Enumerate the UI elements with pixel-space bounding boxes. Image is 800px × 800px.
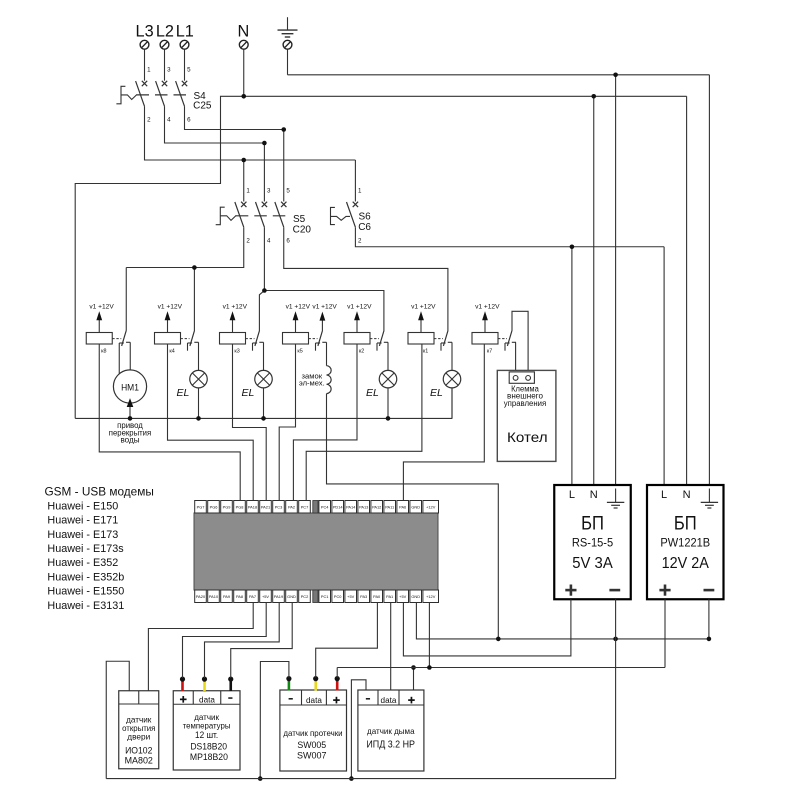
svg-text:2: 2 xyxy=(358,237,362,244)
wire N line to power supplies xyxy=(244,94,687,485)
svg-text:L: L xyxy=(661,489,667,501)
svg-text:data: data xyxy=(306,696,323,705)
relay К5 coil and contact xyxy=(283,304,327,355)
svg-text:PA6: PA6 xyxy=(399,505,406,510)
svg-text:Huawei - E352: Huawei - E352 xyxy=(47,557,118,569)
svg-text:v1 +12V: v1 +12V xyxy=(158,304,183,311)
terminal PE with earth symbol xyxy=(278,17,298,49)
wire +12V rail from PSU2 + xyxy=(337,599,665,670)
svg-text:4: 4 xyxy=(267,237,271,244)
svg-text:Huawei - E150: Huawei - E150 xyxy=(47,500,118,512)
power supply BP PW1221B 12V 2A xyxy=(647,485,724,599)
controller board (gray block) xyxy=(194,513,438,590)
wire K4 contact to lamp EL xyxy=(198,342,200,370)
wire N rail to load return bus xyxy=(75,94,246,418)
relay К2 coil and contact xyxy=(344,304,388,355)
lamp EL at x=388 xyxy=(366,370,397,418)
+12V arrow feeding K5 contact xyxy=(312,304,337,331)
svg-text:Huawei - E1550: Huawei - E1550 xyxy=(47,586,124,598)
svg-text:C20: C20 xyxy=(293,224,312,235)
svg-text:3: 3 xyxy=(267,187,271,194)
wire smoke sensor data to pin PA1 xyxy=(390,603,392,691)
wire +5V rail from PSU1 + xyxy=(403,599,571,656)
svg-text:EL: EL xyxy=(366,387,379,399)
svg-text:PA12: PA12 xyxy=(372,505,381,510)
svg-text:PA2: PA2 xyxy=(288,505,295,510)
svg-text:к5: к5 xyxy=(297,348,302,354)
svg-text:PG9: PG9 xyxy=(223,505,231,510)
terminal L3 xyxy=(136,23,154,50)
relay К8 coil and contact xyxy=(86,304,130,374)
svg-text:PC0: PC0 xyxy=(334,594,342,599)
svg-text:PA14: PA14 xyxy=(346,505,356,510)
svg-text:C25: C25 xyxy=(193,100,212,111)
door sensor (датчик открытия двери ИО102 МА802) xyxy=(119,691,159,769)
terminal L2 xyxy=(156,23,174,50)
svg-text:EL: EL xyxy=(430,387,443,399)
svg-text:PA9: PA9 xyxy=(223,594,230,599)
wire K7 contact to boiler terminal 1 xyxy=(515,342,517,375)
svg-text:PC3: PC3 xyxy=(275,505,283,510)
smoke sensor (датчик дыма ИПД 3.2 НР) xyxy=(358,690,424,771)
svg-text:S6: S6 xyxy=(359,212,372,223)
wire leak sensor + to +12V line xyxy=(336,668,338,678)
svg-text:ИО102: ИО102 xyxy=(125,745,152,755)
wire K5 contact to door lock solenoid xyxy=(326,342,328,365)
svg-text:эл-мех.: эл-мех. xyxy=(299,379,325,388)
wire K1 coil to pin PC7 xyxy=(306,344,422,501)
relay К4 coil and contact xyxy=(155,304,199,355)
svg-text:PA3: PA3 xyxy=(360,594,367,599)
svg-text:PA0: PA0 xyxy=(373,594,381,599)
svg-text:к1: к1 xyxy=(423,348,428,354)
svg-text:Huawei - E352b: Huawei - E352b xyxy=(47,571,124,583)
power supply BP RS-15-5 5V 3A xyxy=(554,485,631,599)
svg-text:L: L xyxy=(569,489,575,501)
svg-text:data: data xyxy=(381,696,398,705)
wire temp sensor - to pin GND xyxy=(231,603,292,679)
wire S6 pin2 to power supplies L xyxy=(355,227,664,485)
svg-text:ИПД 3.2 НР: ИПД 3.2 НР xyxy=(366,739,415,750)
svg-text:5: 5 xyxy=(187,67,191,74)
svg-text:v1 +12V: v1 +12V xyxy=(411,304,436,311)
wire S4 pin4 (L2) to S5 pin3 xyxy=(165,106,267,201)
svg-text:к3: к3 xyxy=(234,348,239,354)
svg-text:Huawei - E3131: Huawei - E3131 xyxy=(47,600,124,612)
svg-text:PG6: PG6 xyxy=(210,505,218,510)
svg-text:N: N xyxy=(590,489,598,501)
svg-text:RS-15-5: RS-15-5 xyxy=(572,535,613,549)
svg-text:12V 2A: 12V 2A xyxy=(662,555,710,572)
svg-text:БП: БП xyxy=(581,512,604,534)
wire door sensor right terminal to pin PA7 xyxy=(148,603,253,691)
svg-text:L2: L2 xyxy=(156,23,174,41)
breaker S4 C25 (3-pole) xyxy=(116,49,211,123)
wire smoke sensor - to ground bus xyxy=(349,680,366,781)
wire K8 coil to pin PG8 xyxy=(99,344,240,501)
svg-text:12 шт.: 12 шт. xyxy=(195,730,218,740)
svg-text:+5V: +5V xyxy=(347,594,354,599)
wire smoke sensor + to +12V line xyxy=(411,665,416,690)
svg-text:v1 +12V: v1 +12V xyxy=(475,304,500,311)
wire K4 coil to pin PA18 xyxy=(168,344,254,501)
svg-text:PA13: PA13 xyxy=(359,505,368,510)
wire K5 coil to pin PC3 xyxy=(279,344,295,501)
svg-text:двери: двери xyxy=(127,733,150,742)
svg-text:+12V: +12V xyxy=(426,594,436,599)
svg-text:управления: управления xyxy=(504,399,546,408)
svg-text:+12V: +12V xyxy=(426,505,436,510)
svg-text:PA8: PA8 xyxy=(236,594,243,599)
svg-text:MP18B20: MP18B20 xyxy=(190,752,228,762)
svg-text:v1 +12V: v1 +12V xyxy=(347,304,372,311)
svg-text:PA7: PA7 xyxy=(249,594,256,599)
label привод перекрытия воды xyxy=(109,421,151,445)
wire leak sensor - to ground bus xyxy=(258,662,289,781)
wire S5 pin6 to relay contact K1 xyxy=(284,227,448,330)
wire S4 pin6 (L1) to S5 pin5 xyxy=(185,106,287,201)
svg-text:PW1221B: PW1221B xyxy=(660,535,710,549)
svg-text:PD14: PD14 xyxy=(333,505,344,510)
relay К7 coil and contact xyxy=(472,304,516,355)
label GSM - USB modem list xyxy=(45,485,154,612)
wire temp sensor + to pin +5V xyxy=(183,603,267,679)
wire PE line to power supplies xyxy=(288,73,710,486)
svg-text:Huawei - E173s: Huawei - E173s xyxy=(47,543,124,555)
svg-text:датчик протечки: датчик протечки xyxy=(283,729,342,738)
wire N terminal to N distribution node xyxy=(243,49,245,96)
svg-text:датчик дыма: датчик дыма xyxy=(367,727,415,736)
PCB bottom pin row right group xyxy=(319,590,439,603)
terminal N xyxy=(238,23,250,50)
svg-text:4: 4 xyxy=(167,116,171,123)
svg-text:2: 2 xyxy=(246,237,250,244)
svg-text:S5: S5 xyxy=(293,214,306,225)
svg-text:5: 5 xyxy=(286,187,290,194)
svg-text:1: 1 xyxy=(358,187,362,194)
PCB pin group separator top xyxy=(313,501,318,514)
lamp EL at x=452 xyxy=(430,370,461,418)
svg-text:GSM - USB модемы: GSM - USB модемы xyxy=(45,485,154,499)
svg-text:data: data xyxy=(199,695,216,704)
wire K8 contact to motor HM1 xyxy=(129,342,131,370)
svg-text:DS18B20: DS18B20 xyxy=(190,742,227,752)
svg-text:GND: GND xyxy=(287,594,296,599)
relay К1 coil and contact xyxy=(408,304,452,355)
svg-text:к7: к7 xyxy=(487,348,492,354)
svg-text:6: 6 xyxy=(286,237,290,244)
svg-text:C6: C6 xyxy=(358,222,371,233)
svg-text:GND: GND xyxy=(411,594,420,599)
terminal L1 xyxy=(176,23,194,50)
breaker S6 C6 (1-pole) xyxy=(331,187,372,244)
svg-text:3: 3 xyxy=(167,67,171,74)
svg-text:+5V: +5V xyxy=(262,594,269,599)
wire PE terminal to earth line xyxy=(287,49,289,75)
wire sensor ground bus xyxy=(106,778,615,780)
svg-text:PA11: PA11 xyxy=(385,505,394,510)
svg-text:5V 3A: 5V 3A xyxy=(572,555,613,572)
wire K2 contact to lamp EL xyxy=(387,342,389,370)
svg-text:SW007: SW007 xyxy=(297,750,327,760)
temperature sensor (датчик температуры 12 шт.) xyxy=(173,691,240,770)
svg-text:v1 +12V: v1 +12V xyxy=(286,304,311,311)
leak sensor pigtails (green/yellow/red) xyxy=(286,676,340,691)
svg-text:PC2: PC2 xyxy=(301,594,309,599)
PCB top pin row left group xyxy=(195,501,311,514)
wire K7 coil to pin PA6 xyxy=(403,344,484,501)
svg-text:PA20: PA20 xyxy=(196,594,206,599)
svg-text:v1 +12V: v1 +12V xyxy=(89,304,114,311)
svg-text:Котел: Котел xyxy=(507,430,548,445)
svg-text:PG8: PG8 xyxy=(236,505,244,510)
svg-text:PC4: PC4 xyxy=(321,505,329,510)
wire S5 pin4 to relay contacts K3,K2 xyxy=(259,227,384,330)
svg-text:SW005: SW005 xyxy=(297,740,326,750)
wire S4 pin2 (L3) to S5 pin1 and S6 pin1 xyxy=(145,106,356,201)
svg-text:PC7: PC7 xyxy=(301,505,309,510)
svg-text:N: N xyxy=(683,489,691,501)
svg-text:v1 +12V: v1 +12V xyxy=(223,304,248,311)
svg-text:БП: БП xyxy=(674,512,697,534)
svg-text:PG7: PG7 xyxy=(197,505,205,510)
relay К3 coil and contact xyxy=(220,304,264,355)
svg-text:PA1: PA1 xyxy=(386,594,393,599)
PCB bottom pin row left group xyxy=(195,590,311,603)
svg-text:к2: к2 xyxy=(359,348,364,354)
svg-text:к4: к4 xyxy=(169,348,174,354)
svg-text:PA21: PA21 xyxy=(261,505,270,510)
svg-text:Huawei - E171: Huawei - E171 xyxy=(47,515,118,527)
svg-text:температуры: температуры xyxy=(183,721,231,730)
svg-text:L1: L1 xyxy=(176,23,194,41)
svg-text:GND: GND xyxy=(411,505,420,510)
lamp EL at x=198.5 xyxy=(177,370,208,418)
temp sensor pigtails (red/yellow/black) xyxy=(180,677,233,692)
svg-text:2: 2 xyxy=(147,116,151,123)
wire temp sensor data to pin PA19 xyxy=(205,603,280,679)
svg-text:PA19: PA19 xyxy=(274,594,283,599)
wire door sensor left terminal to ground bus xyxy=(106,661,129,778)
svg-text:воды: воды xyxy=(120,436,139,445)
PCB pin group separator bottom xyxy=(313,590,318,603)
lamp EL at x=263.5 xyxy=(242,370,273,418)
svg-text:N: N xyxy=(238,23,250,41)
leak sensor (датчик протечки SW005 SW007) xyxy=(280,690,347,771)
wire K3 coil to pin PA21 xyxy=(233,344,267,501)
svg-text:Huawei - E173: Huawei - E173 xyxy=(47,529,118,541)
wire lock solenoid return to GND line xyxy=(327,394,499,639)
svg-text:PC1: PC1 xyxy=(321,594,329,599)
svg-text:к8: к8 xyxy=(101,348,106,354)
svg-text:1: 1 xyxy=(246,187,250,194)
wire K1 contact to lamp EL xyxy=(451,342,453,370)
svg-text:HM1: HM1 xyxy=(121,382,139,392)
door lock solenoid (замок эл-мех.) xyxy=(299,366,331,394)
wire S5 pin2 to relay contacts K8,K4 xyxy=(126,227,244,330)
breaker S5 C20 (3-pole) xyxy=(216,187,312,244)
svg-text:EL: EL xyxy=(242,387,255,399)
wire N return bus under loads xyxy=(75,388,452,421)
svg-text:L3: L3 xyxy=(136,23,154,41)
svg-text:+5V: +5V xyxy=(399,594,406,599)
svg-text:EL: EL xyxy=(177,387,190,399)
svg-text:v1 +12V: v1 +12V xyxy=(312,304,337,311)
svg-text:6: 6 xyxy=(187,116,191,123)
PCB top pin row right group xyxy=(319,501,439,514)
svg-text:PA18: PA18 xyxy=(248,505,257,510)
boiler Котел with external control terminal xyxy=(497,370,556,461)
svg-text:PA10: PA10 xyxy=(209,594,219,599)
wire PSU1 - down to sensor ground bus xyxy=(615,599,617,778)
wire K2 coil to pin PA2 xyxy=(293,344,357,501)
wire K3 contact to lamp EL xyxy=(263,342,265,370)
wire leak sensor data to pin PA0 xyxy=(316,603,378,678)
svg-text:МА802: МА802 xyxy=(125,756,153,766)
wire GND rail from PCB to PSU minus terminals xyxy=(416,599,711,641)
wire K7 blade to boiler terminal 2 xyxy=(512,311,528,375)
svg-text:1: 1 xyxy=(147,67,151,74)
motor HM1 (water shutoff actuator) xyxy=(113,370,146,419)
